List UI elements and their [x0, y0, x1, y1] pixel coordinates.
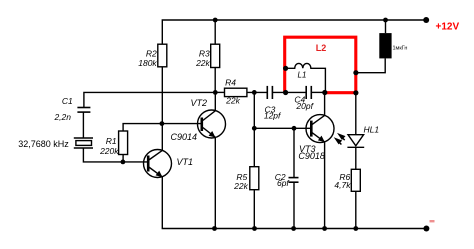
svg-text:C9014: C9014	[171, 132, 198, 142]
svg-text:R3: R3	[199, 49, 210, 59]
svg-text:12pf: 12pf	[264, 111, 282, 121]
svg-text:22k: 22k	[225, 95, 240, 105]
svg-text:L2: L2	[316, 43, 327, 53]
svg-text:22k: 22k	[195, 58, 210, 68]
svg-text:C1: C1	[62, 96, 73, 106]
svg-text:6pf: 6pf	[277, 178, 290, 188]
svg-text:2,2n: 2,2n	[53, 112, 71, 122]
svg-text:+12V: +12V	[436, 22, 460, 33]
svg-text:R4: R4	[225, 78, 236, 88]
svg-text:R2: R2	[146, 49, 157, 59]
svg-text:HL1: HL1	[364, 124, 380, 134]
svg-text:R1: R1	[106, 136, 117, 146]
svg-text:VT2: VT2	[191, 98, 208, 108]
svg-text:C9018: C9018	[298, 151, 325, 161]
svg-text:1мкГн: 1мкГн	[393, 46, 408, 52]
svg-text:20pf: 20pf	[295, 101, 314, 111]
svg-text:L1: L1	[298, 70, 307, 79]
svg-text:32,7680 kHz: 32,7680 kHz	[18, 139, 69, 149]
svg-text:22k: 22k	[233, 181, 248, 191]
svg-text:180k: 180k	[138, 58, 157, 68]
svg-text:4,7k: 4,7k	[334, 180, 351, 190]
svg-text:VT1: VT1	[177, 157, 194, 167]
svg-text:220k: 220k	[99, 146, 119, 156]
